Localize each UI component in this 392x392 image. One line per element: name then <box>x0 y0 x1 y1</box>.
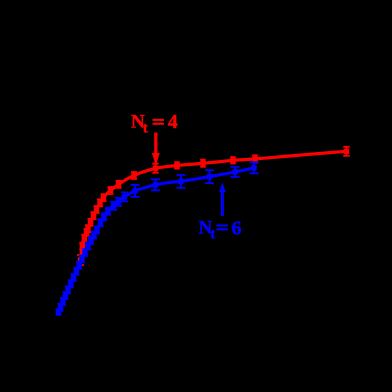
blue error bars <box>56 162 259 314</box>
arrow to blue curve <box>219 182 226 216</box>
svg-text:t: t <box>210 227 215 243</box>
label N_t=6 <box>199 217 242 242</box>
svg-text:4: 4 <box>168 111 178 133</box>
blue data markers <box>56 165 257 315</box>
svg-text:t: t <box>143 121 148 137</box>
label N_t=4 <box>131 111 178 137</box>
red curve N_t=4 line <box>81 151 347 260</box>
svg-text:6: 6 <box>232 217 242 239</box>
red error bars <box>77 147 350 265</box>
blue curve N_t=6 line <box>59 168 255 312</box>
red data markers <box>78 149 349 263</box>
arrow to red curve <box>152 133 160 167</box>
